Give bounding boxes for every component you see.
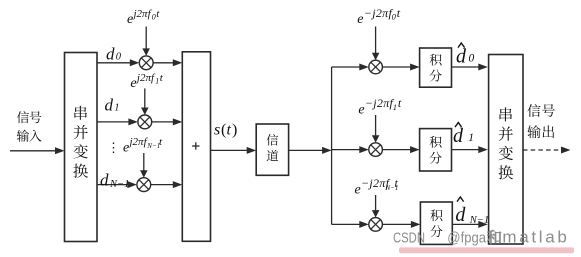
- svg-text:e: e: [127, 12, 133, 27]
- branch bus vertical wire: [331, 67, 333, 224]
- svg-text:d: d: [456, 46, 467, 68]
- wire d0 from U1 to multiplier M1: [97, 62, 131, 64]
- channel box U3 信道: [256, 124, 288, 175]
- plus sign: [192, 145, 199, 147]
- integrator box 积分 I1: [420, 48, 452, 87]
- svg-text:e: e: [355, 182, 361, 197]
- wire d1 from U1 to multiplier M2: [97, 121, 129, 123]
- multiplier M5: [369, 143, 383, 157]
- svg-text:j2πf: j2πf: [135, 72, 156, 84]
- label d-hat N-1: [457, 197, 464, 202]
- wire integrator I1 to P/S box: [452, 66, 480, 68]
- wire carrier arrow into M1: [145, 27, 147, 50]
- svg-text:j2πf: j2πf: [132, 8, 153, 20]
- multiplier M3: [137, 178, 151, 192]
- wire bus to multiplier M5: [332, 149, 361, 151]
- integrator box 积分 I3: [420, 202, 452, 244]
- wire M4 to integrator: [382, 66, 411, 68]
- svg-text:⋮: ⋮: [107, 140, 120, 155]
- label d-hat 0: [458, 43, 465, 48]
- svg-text:−j2πf: −j2πf: [365, 96, 395, 110]
- svg-text:d: d: [453, 125, 464, 147]
- label output signal 信号输出: [527, 104, 540, 117]
- wire bus to multiplier M4: [332, 66, 361, 68]
- wire input arrow: [10, 150, 56, 152]
- wire carrier arrow into M3: [143, 153, 145, 171]
- svg-text:d: d: [106, 45, 115, 64]
- svg-text:@fpga: @fpga: [447, 229, 486, 246]
- svg-text:d: d: [105, 96, 114, 115]
- label d-hat 1: [455, 123, 462, 128]
- svg-text:0: 0: [469, 52, 475, 64]
- wire carrier arrow into M4: [375, 27, 377, 54]
- svg-text:e: e: [130, 76, 136, 91]
- svg-text:s: s: [214, 122, 220, 139]
- wire dashed output arrow: [523, 149, 562, 151]
- integrator box 积分 I2: [420, 129, 452, 171]
- svg-text:matlab: matlab: [502, 227, 566, 246]
- wire dN-1 from U1 to multiplier M3: [97, 184, 128, 186]
- box U1 serial-to-parallel converter 串并变换: [65, 53, 98, 242]
- adder box U2: [182, 52, 210, 242]
- svg-text:d: d: [100, 171, 109, 190]
- wire channel to branch bus: [289, 149, 324, 151]
- wire M3 to adder: [151, 184, 174, 186]
- wire adder to channel: [211, 149, 248, 151]
- svg-text:N−1: N−1: [109, 179, 129, 190]
- svg-text:1: 1: [468, 132, 474, 144]
- multiplier M6: [369, 218, 383, 232]
- svg-text:e: e: [123, 140, 129, 155]
- svg-text:0: 0: [116, 52, 122, 63]
- svg-text:1: 1: [155, 77, 159, 86]
- svg-text:j2πf: j2πf: [128, 136, 149, 148]
- wire integrator I3 to P/S box: [452, 223, 479, 225]
- svg-text:1: 1: [393, 102, 397, 112]
- wire M5 to integrator: [382, 149, 411, 151]
- wire carrier arrow into M2: [144, 88, 146, 108]
- box U4 parallel-to-serial converter 串并变换: [489, 55, 523, 245]
- svg-text:e: e: [358, 102, 364, 117]
- svg-text:N−1: N−1: [469, 215, 489, 226]
- wire carrier arrow into M5: [375, 115, 377, 136]
- watermark CSDN @fpga和matlab: [393, 227, 567, 246]
- svg-text:d: d: [455, 204, 466, 226]
- multiplier M4: [369, 60, 383, 74]
- svg-text:CSDN: CSDN: [393, 229, 425, 246]
- svg-text:0: 0: [152, 13, 156, 22]
- svg-text:−j2πf: −j2πf: [364, 6, 394, 20]
- wire M2 to adder: [152, 121, 174, 123]
- wire M1 to adder: [153, 62, 174, 64]
- svg-text:e: e: [357, 12, 363, 27]
- multiplier M1: [139, 56, 153, 70]
- multiplier M2: [138, 115, 152, 129]
- label input signal 信号输入: [17, 111, 29, 123]
- svg-text:1: 1: [114, 103, 119, 114]
- watermark pink underline bar: [399, 247, 574, 253]
- svg-text:): ): [232, 122, 237, 139]
- wire integrator I2 to P/S box: [452, 149, 480, 151]
- wire carrier arrow into M6: [375, 195, 377, 211]
- svg-text:t: t: [227, 122, 232, 139]
- wire bus to multiplier M6: [332, 223, 361, 225]
- wire M6 to integrator: [382, 223, 412, 225]
